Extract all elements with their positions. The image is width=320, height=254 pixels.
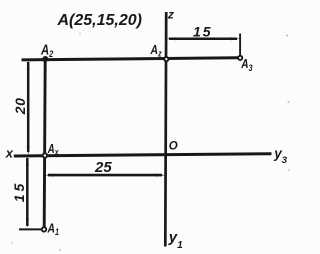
axis z / y1 (vertical): [164, 12, 168, 247]
wire top horizontal line A2-Az-A3: [22, 58, 239, 60]
point A3 (profile projection, open circle): [238, 56, 253, 74]
wire vertical line A2-Ax-A1: [44, 59, 45, 228]
svg-text:15: 15: [193, 23, 213, 39]
svg-text:20: 20: [12, 98, 28, 116]
svg-text:y1: y1: [168, 229, 183, 251]
point Ax (on x axis, open circle): [43, 143, 59, 158]
svg-text:A3: A3: [240, 57, 253, 73]
point A2 (frontal projection, filled dot): [40, 41, 53, 61]
axis x / y3 (horizontal): [14, 154, 272, 156]
dimension 20 (left, between top line and x axis): [12, 61, 30, 155]
title A(25,15,20): [57, 12, 143, 29]
svg-text:25: 25: [94, 159, 112, 176]
dimension 15 (top right, z axis to A3): [167, 23, 240, 55]
label z: [167, 8, 174, 22]
svg-text:A2: A2: [40, 41, 53, 59]
scan specks: [11, 33, 290, 251]
svg-text:Az: Az: [150, 43, 162, 58]
svg-text:x: x: [5, 146, 14, 161]
point A1 (horizontal projection, open circle): [42, 222, 60, 237]
dimension 15 (left, between x axis and A1): [11, 156, 46, 229]
svg-text:A(25,15,20): A(25,15,20): [57, 12, 143, 29]
svg-text:Ax: Ax: [47, 143, 59, 158]
svg-text:15: 15: [11, 181, 27, 203]
svg-text:O: O: [169, 140, 178, 152]
svg-text:y3: y3: [273, 146, 288, 166]
dimension 25 (below x axis, Ax to O): [45, 159, 165, 177]
label x: [5, 146, 14, 161]
label y3: [273, 146, 288, 166]
label y1: [168, 229, 183, 251]
point Az (on z axis, open circle): [150, 43, 169, 61]
svg-text:z: z: [167, 8, 174, 22]
node O (origin label): [169, 140, 178, 152]
svg-text:A1: A1: [47, 222, 60, 237]
